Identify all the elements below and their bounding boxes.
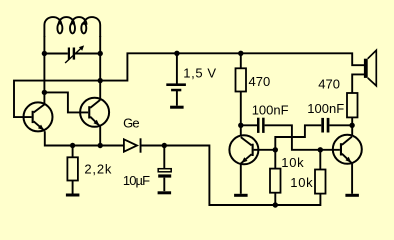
speaker LS1	[364, 50, 376, 86]
node tank right top	[98, 51, 103, 56]
wire cross-coupling T2 base	[44, 92, 88, 112]
transistor T4	[333, 135, 362, 164]
wire cap1 right lead to T4 base	[265, 125, 321, 150]
ground 10uF	[158, 191, 172, 194]
svg-text:10k: 10k	[281, 155, 304, 170]
transistor T3 (mirrored)	[229, 135, 258, 164]
svg-text:100nF: 100nF	[252, 103, 289, 118]
variable capacitor C1	[65, 45, 84, 63]
resistor 10k b	[315, 170, 326, 194]
wire diode to 10k bottoms	[142, 146, 321, 206]
wire cap2 right lead	[329, 124, 352, 126]
wire LC left rail	[43, 36, 45, 104]
node emitter 2.2k	[70, 143, 75, 148]
wire speaker bottom to 470b	[352, 74, 364, 136]
svg-text:10k: 10k	[290, 175, 313, 190]
svg-text:Ge: Ge	[123, 116, 139, 131]
wire 2.2k leads	[72, 146, 74, 194]
resistor 470 b	[347, 93, 358, 117]
wire T1 emitter to diode	[45, 131, 124, 145]
node tank left mid	[42, 90, 47, 95]
resistor 10k a	[270, 169, 281, 193]
transistor T1	[24, 102, 53, 131]
ground T4	[345, 194, 359, 197]
inductor L1	[44, 17, 100, 37]
diode D1 Ge	[124, 138, 142, 152]
wire T4 emitter to ground	[351, 164, 353, 194]
wire 10k2 top lead	[319, 150, 321, 170]
node 470a top	[238, 51, 243, 56]
svg-text:470: 470	[249, 74, 271, 89]
wire cross-coupling T1 base	[14, 81, 100, 118]
wire 10k1 leads	[274, 150, 276, 205]
capacitor 100nF a	[257, 118, 265, 133]
wire T4 base lead	[320, 149, 340, 151]
node emitter T2	[98, 143, 103, 148]
wire 10uF leads	[163, 146, 165, 192]
svg-text:10µF: 10µF	[123, 173, 150, 188]
wire tank top row left lead	[44, 53, 67, 55]
node T3 collector	[238, 123, 243, 128]
wire tank top row right lead	[75, 53, 100, 55]
svg-text:100nF: 100nF	[307, 101, 344, 116]
wire T2 emitter	[99, 126, 101, 145]
ground 2.2k	[66, 194, 80, 197]
capacitor 10uF electrolytic	[158, 169, 171, 178]
node tank left top	[42, 51, 47, 56]
node 10uF top	[162, 143, 167, 148]
wire T3 emitter to ground	[240, 164, 242, 193]
node 10k1 bottom	[273, 202, 278, 207]
wire LC right rail	[99, 36, 101, 99]
node T4 collector	[349, 123, 354, 128]
node T3 base	[273, 147, 278, 152]
wire 470a leads	[240, 53, 242, 136]
wire battery to ground	[176, 91, 178, 106]
resistor 2.2k	[67, 157, 78, 180]
wire T3 base to cap2 left lead	[275, 125, 321, 150]
wire V+ rail	[100, 53, 364, 80]
wire T3 base	[254, 149, 276, 151]
ground battery	[170, 106, 184, 109]
node tank right mid	[98, 78, 103, 83]
svg-text:2,2k: 2,2k	[84, 162, 112, 177]
node T4 base	[318, 147, 323, 152]
svg-text:470: 470	[318, 77, 340, 92]
svg-text:1,5 V: 1,5 V	[183, 65, 216, 80]
transistor T2	[80, 98, 109, 127]
wire cap1 left lead	[241, 124, 257, 126]
ground T3	[234, 194, 248, 197]
capacitor 100nF b	[321, 118, 329, 133]
battery B1	[166, 83, 186, 91]
resistor 470 a	[236, 68, 247, 91]
wire battery top lead	[176, 53, 178, 83]
node battery top	[174, 51, 179, 56]
